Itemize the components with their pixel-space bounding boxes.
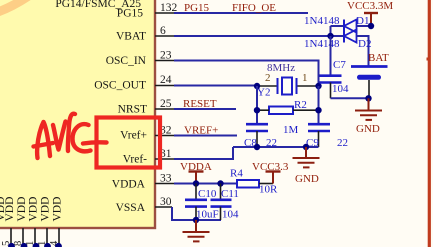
wire VSSA down to cap rail [172,207,221,220]
net label PG15 [184,2,210,14]
node: D1/VCC3.3M junction [368,23,374,29]
svg-text:1N4148: 1N4148 [304,38,340,50]
pin 33 (VDDA) [155,173,174,185]
svg-text:VSSA: VSSA [116,202,146,214]
net label BAT [368,52,389,64]
wire VBAT to diode node [174,35,331,37]
svg-text:GND: GND [295,173,319,185]
pin 23 (OSC_IN) [155,50,174,62]
svg-text:FIFO_OE: FIFO_OE [232,2,276,14]
svg-text:VCC3.3M: VCC3.3M [347,0,393,12]
svg-text:30: 30 [160,196,172,208]
designator C10 [198,188,217,200]
wire VBAT node down to C7 [330,36,332,76]
value 104 (C7) [332,83,349,95]
pin name NRST [118,104,147,116]
pin name VSSA [116,202,146,214]
resistor R4 [237,180,273,188]
svg-text:VDDA: VDDA [112,179,146,191]
value 8MHz [267,62,295,74]
pin name VBAT [116,31,146,43]
pin 31 (Vref-) [155,148,174,160]
svg-text:R4: R4 [230,168,243,180]
pin 32 (Vref+) [155,125,174,137]
red annotation: box around Vref pins [97,118,161,168]
net label RESET [183,98,217,110]
power port VCC3.3M [347,0,393,26]
pin 25 (NRST) [155,98,174,110]
pin number 2 (Y2 left) [265,72,271,84]
net label GND (rail) [295,173,319,185]
svg-text:8MHz: 8MHz [267,62,295,74]
pin 132 (PG15) [155,2,178,14]
junction dots bottom VDD bus [8,243,62,247]
designator R2 [294,99,307,111]
wire OSC_OUT to crystal left node [174,85,257,87]
svg-text:R2: R2 [294,99,307,111]
designator R4 [230,168,243,180]
capacitor C10 [185,184,207,221]
svg-text:6: 6 [160,25,166,37]
net label VREF+ [184,125,218,137]
power port VDDA [180,161,212,184]
capacitor C7 [320,76,342,99]
svg-text:VDD: VDD [28,197,40,222]
node: ground tap junction [303,144,309,150]
svg-text:C10: C10 [198,188,217,200]
wire crystal left node down to C8 [256,86,258,124]
wire D1 cathode down to VBAT node [330,26,332,36]
svg-text:VDD: VDD [40,197,52,222]
capacitor C11 [211,184,232,221]
svg-text:33: 33 [160,173,172,185]
svg-text:BAT: BAT [368,52,389,64]
node: R2 right junction [315,107,321,113]
svg-text:PG15: PG15 [117,8,143,20]
wire net PG15 / FIFO_OE [174,12,308,14]
svg-text:104: 104 [332,83,349,95]
value 1N4148 (D1) [304,15,340,27]
designator D1 [356,15,369,27]
pin name VDD (rotated, x6 on bottom edge) [0,197,64,222]
red annotation: ADC scribble [34,114,107,158]
svg-text:23: 23 [160,50,172,62]
svg-text:VCC3.3: VCC3.3 [252,161,289,173]
node: VDDA tap junction [193,180,199,186]
net label GND (battery) [356,123,380,135]
battery BAT [351,67,388,99]
value 104 (C11) [222,209,239,221]
red annotation: faint marker arc top-left [0,0,33,13]
wire OSC_IN to crystal right node [174,61,319,87]
svg-text:25: 25 [160,98,172,110]
crystal Y2 [257,78,319,95]
svg-text:VDD: VDD [52,197,64,222]
node: C11 top junction [217,180,223,186]
wire crystal right node down to C9 [318,86,320,124]
pin name Vref+ [120,130,147,142]
pin name Vref- [123,154,147,166]
svg-text:OSC_OUT: OSC_OUT [94,80,146,92]
svg-text:PG15: PG15 [184,2,210,14]
svg-text:GND: GND [356,123,380,135]
ground (VSSA / C10 / C11) [183,220,210,241]
ground (C8/C9 rail GND) [293,147,320,167]
node: R2 left junction [254,107,260,113]
node: C10 bottom junction [193,217,199,223]
pin 6 (VBAT) [155,25,174,37]
pin 24 (OSC_OUT) [155,74,174,86]
node: VBAT/D2 junction [327,33,333,39]
value 22 (C8) [266,137,277,149]
wire ground rail (Vref- / C8 / C9) [233,146,319,148]
designator C11 [221,188,239,200]
node: crystal left junction [254,83,260,89]
capacitor C8 [246,124,268,147]
pin number 1 (Y2 right) [302,72,308,84]
VDD pins on bottom edge (5 stubs) [11,228,59,245]
svg-text:VDDA: VDDA [180,161,212,173]
pin name PG15 [117,8,143,20]
pin 30 (VSSA) [155,196,172,208]
svg-text:10R: 10R [259,184,278,196]
wire NRST / RESET [174,108,236,110]
pin numbers rotated on bottom pins [1,240,60,246]
node: crystal right junction [315,83,321,89]
svg-text:24: 24 [160,74,172,86]
value 1M [283,124,299,136]
svg-text:D2: D2 [358,38,371,50]
node: C8 bottom junction [254,144,260,150]
svg-text:1M: 1M [283,124,299,136]
net label FIFO_OE [232,2,276,14]
svg-text:RESET: RESET [183,98,217,110]
designator C7 [333,59,346,71]
designator Y2 [257,87,270,99]
designator D2 [358,38,371,50]
value 1N4148 (D2) [304,38,340,50]
svg-text:VDD: VDD [4,197,16,222]
wire VREF+ [174,135,237,137]
svg-text:Vref+: Vref+ [120,130,147,142]
value 10uF [196,209,219,221]
ground (battery GND) [355,98,382,120]
designator C8 [244,137,257,149]
wire VDDA row [174,183,237,185]
svg-text:22: 22 [337,137,348,149]
pin name PG14/FSMC_A25 (cropped at top) [55,0,141,10]
pin name VDDA [112,179,146,191]
svg-text:VREF+: VREF+ [184,125,218,137]
pin name OSC_IN [106,55,147,67]
diode D1 (1N4148) [331,20,372,33]
svg-text:Vref-: Vref- [123,154,147,166]
wire Vref- down-up to ground rail [174,147,233,159]
resistor R2 [257,107,319,115]
svg-text:1: 1 [302,72,308,84]
power port VCC3.3 [252,161,289,184]
svg-text:C11: C11 [221,188,239,200]
diode D2 (1N4148) [331,30,369,67]
node: battery/C7 ground junction [365,95,371,101]
capacitor C9 [308,124,330,147]
svg-text:OSC_IN: OSC_IN [106,55,147,67]
value 22 (C9) [337,137,348,149]
svg-text:NRST: NRST [118,104,147,116]
value 10R [259,184,278,196]
svg-text:VBAT: VBAT [116,31,146,43]
svg-text:1N4148: 1N4148 [304,15,340,27]
pin name OSC_OUT [94,80,146,92]
svg-text:104: 104 [222,209,239,221]
sheet border right edge [427,0,430,247]
op-amp U? : microcontroller body (IC part body, cropped left/top) [0,0,155,228]
svg-text:10uF: 10uF [196,209,219,221]
svg-text:C7: C7 [333,59,346,71]
designator C9 [306,137,319,149]
svg-text:VDD: VDD [16,197,28,222]
wire C7 bottom to battery bottom [331,97,369,99]
svg-text:D1: D1 [356,15,369,27]
